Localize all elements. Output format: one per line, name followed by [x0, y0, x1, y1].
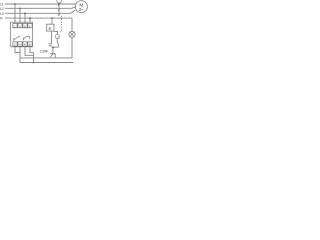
node dot tap L2 [19, 8, 21, 10]
terminal 1 [13, 23, 17, 27]
svg-text:K: K [49, 26, 52, 31]
wire output 8 staircase [20, 47, 72, 63]
node dot stub on L1 [58, 3, 60, 5]
lamp H2 indicator [69, 31, 75, 37]
motor M 3~ [75, 1, 87, 13]
wire coil A1 [51, 18, 53, 24]
node dot N to coil [51, 17, 53, 19]
wire rail N [5, 17, 72, 19]
terminal 4 [18, 42, 22, 46]
terminal 2 [13, 42, 17, 46]
wire coil to lamp1 [54, 31, 57, 34]
svg-text:L3: L3 [0, 12, 4, 16]
wire lamp stub vertical through phases [58, 3, 60, 15]
terminal 3 [18, 23, 22, 27]
contactor contact slashes [58, 3, 61, 15]
wire tap L3 to breaker [24, 13, 26, 23]
node dot control junction [52, 47, 54, 49]
terminal 8 [28, 42, 32, 46]
svg-text:3~: 3~ [79, 7, 84, 12]
wire rail L1 [5, 3, 76, 5]
wire output 4 staircase long [20, 47, 73, 63]
lamp stub circle on L1 [57, 0, 62, 3]
wire output 6 drop [25, 47, 34, 56]
svg-text:L1: L1 [0, 2, 4, 6]
wire tap L1 to breaker [14, 4, 16, 23]
terminal 5 [23, 23, 27, 27]
RCD contact pole left [14, 36, 20, 41]
RCD toroid element right [23, 36, 29, 40]
RCD breaker F1 box [11, 22, 33, 47]
terminal 7 [28, 23, 32, 27]
wire output 2 drop [15, 47, 20, 53]
node dot tap L1 [14, 3, 16, 5]
svg-text:L2: L2 [0, 7, 4, 11]
wire tap L2 to breaker [19, 8, 21, 23]
switch S manual [50, 48, 55, 58]
svg-text:C10F: C10F [40, 49, 49, 54]
linkage dashed contactor [59, 16, 62, 32]
wire rail L3 [5, 10, 75, 13]
contactor coil K box [47, 24, 54, 31]
wire lamp2 down [71, 38, 73, 58]
wire coil A2 [51, 31, 53, 44]
node dot tap L3 [24, 13, 26, 15]
node dot tap N [29, 17, 31, 19]
wire lamp1 down [53, 38, 58, 47]
terminal 6 [23, 42, 27, 46]
wire tap N to breaker [29, 18, 31, 23]
svg-text:2: 2 [58, 36, 60, 40]
wire rail L2 [5, 7, 75, 9]
coil A2 terminal ticks [49, 44, 53, 47]
lamp H1 [55, 34, 59, 38]
wire N corner to lamp2 [71, 18, 73, 31]
svg-text:N: N [0, 17, 3, 21]
